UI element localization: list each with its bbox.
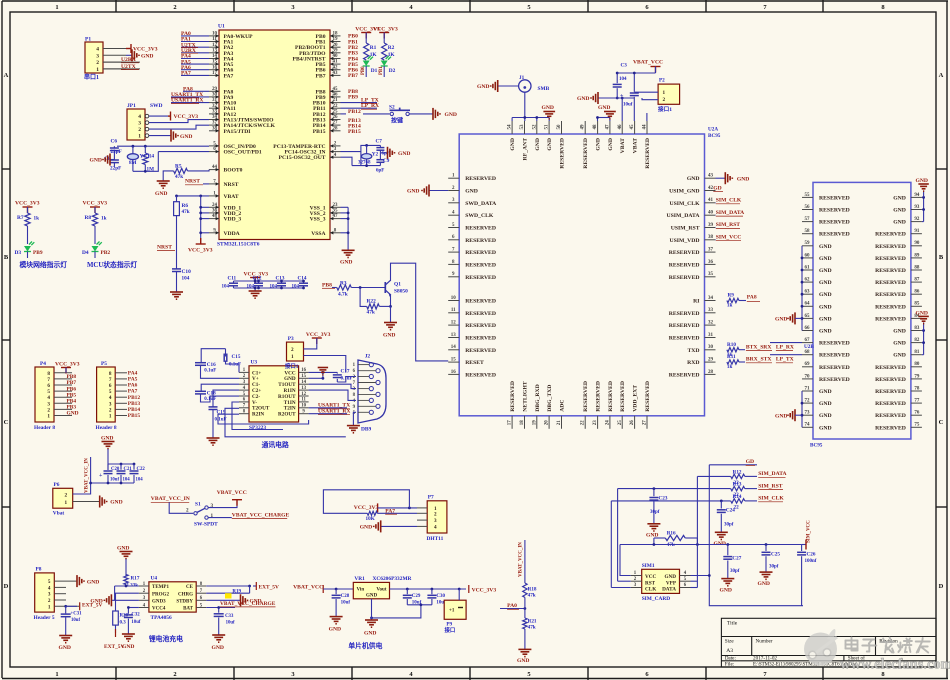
svg-text:RESERVED: RESERVED	[875, 377, 906, 383]
svg-text:104: 104	[247, 285, 255, 290]
wire GND pins 48 47	[596, 116, 610, 121]
button S2	[389, 105, 410, 125]
svg-text:104: 104	[123, 478, 131, 483]
svg-text:16: 16	[212, 65, 218, 70]
svg-text:57: 57	[805, 217, 811, 222]
wire V- T2OUT R2IN runs	[218, 402, 346, 437]
svg-text:104: 104	[619, 77, 627, 82]
svg-text:8: 8	[109, 371, 112, 377]
svg-text:GND: GND	[819, 280, 832, 286]
svg-text:GND: GND	[117, 546, 129, 552]
mcu U1 STM32L151C8T6	[217, 24, 330, 248]
svg-text:TXD: TXD	[687, 348, 699, 354]
svg-text:BTX_SRX: BTX_SRX	[746, 344, 772, 350]
power VCC_3V3 of D2	[373, 27, 398, 44]
wire U2B left GND pins 59-66	[801, 246, 804, 331]
power VCC_3V3 at P3	[304, 332, 331, 349]
svg-text:U2B: U2B	[804, 344, 814, 350]
switch S1 SW-SPDT	[186, 501, 218, 527]
net GD wire	[709, 459, 757, 465]
svg-text:接口: 接口	[445, 626, 456, 634]
svg-text:24: 24	[605, 420, 610, 426]
svg-text:7: 7	[47, 377, 50, 383]
svg-text:USART1_RX: USART1_RX	[318, 409, 350, 415]
svg-text:GND: GND	[819, 401, 832, 407]
svg-text:1k: 1k	[101, 216, 107, 222]
svg-text:10: 10	[301, 404, 306, 409]
svg-text:U4: U4	[151, 576, 158, 582]
svg-text:VBAT_VCC_CHARGE: VBAT_VCC_CHARGE	[220, 601, 276, 607]
svg-text:RESERVED: RESERVED	[465, 323, 496, 329]
capacitor C24 30pf	[717, 501, 735, 532]
capacitor C3 104	[613, 63, 628, 100]
wire Y2 top rail	[361, 144, 381, 166]
svg-text:TPA4056: TPA4056	[151, 615, 172, 621]
svg-text:C27: C27	[732, 556, 741, 562]
wire C17 to DB9 pin2	[337, 377, 356, 383]
ground of S2	[433, 108, 457, 120]
svg-text:6pF: 6pF	[376, 169, 384, 174]
wire below D4	[94, 252, 96, 259]
module U2B BC95 ground block	[804, 182, 911, 448]
svg-text:2: 2	[48, 598, 51, 604]
svg-text:XC6206P332MR: XC6206P332MR	[373, 576, 412, 582]
svg-text:VBAT_VCC_IN: VBAT_VCC_IN	[84, 458, 89, 493]
svg-text:78: 78	[914, 386, 920, 391]
svg-text:GND: GND	[598, 105, 610, 111]
svg-text:21: 21	[557, 420, 562, 426]
wire C26 column	[801, 545, 803, 552]
U2A right pins 43-28	[667, 174, 716, 379]
svg-text:8M: 8M	[129, 160, 137, 166]
U2B right pins 94-75	[875, 193, 922, 431]
svg-text:R2OUT: R2OUT	[278, 412, 296, 418]
power SIM_VCC	[802, 520, 812, 550]
svg-text:J2: J2	[365, 354, 371, 360]
svg-text:RESERVED: RESERVED	[465, 372, 496, 378]
wire R8 to D4	[94, 226, 96, 244]
SIM1 pins	[631, 571, 691, 588]
net NRST at R6	[157, 216, 177, 269]
svg-text:GND3: GND3	[152, 600, 166, 605]
title block	[721, 618, 936, 667]
svg-text:92: 92	[914, 217, 920, 222]
ic U4 TPA4056	[149, 576, 196, 622]
antenna connector J1 SMB	[519, 75, 550, 92]
net PB12 wire to S2	[341, 109, 390, 115]
svg-text:RESERVED: RESERVED	[875, 365, 906, 371]
net USART1_RX at R2OUT	[309, 409, 351, 415]
svg-text:C22: C22	[137, 467, 146, 472]
svg-text:21: 21	[333, 98, 339, 103]
ground of C31	[59, 636, 73, 652]
capacitor C22 104	[130, 464, 146, 483]
svg-text:RXD: RXD	[687, 360, 699, 366]
connector P2 battery	[658, 78, 680, 114]
svg-text:J1: J1	[519, 75, 525, 81]
svg-text:77: 77	[914, 399, 920, 404]
wire LP_RX to pin67	[770, 342, 802, 344]
wire VBAT rail	[175, 195, 209, 198]
ground at P7 pin4	[360, 520, 417, 532]
svg-text:PB14: PB14	[128, 407, 141, 413]
U2A left pins 1-16	[448, 174, 497, 379]
svg-text:GND: GND	[340, 260, 352, 266]
svg-text:75: 75	[914, 423, 920, 428]
wire top loop to C15	[201, 349, 225, 363]
svg-text:VBAT: VBAT	[224, 194, 239, 200]
wire R7 to D3	[27, 226, 29, 244]
svg-text:1K: 1K	[388, 52, 396, 58]
svg-text:RESERVED: RESERVED	[465, 311, 496, 317]
wire P7 pullup loop	[323, 490, 409, 514]
wire JP1 pin3 to PA13	[149, 120, 209, 123]
resistor R20 0.3	[113, 611, 129, 626]
svg-text:P6: P6	[54, 482, 60, 488]
wire crystal bottom	[133, 152, 158, 173]
svg-text:29: 29	[708, 358, 714, 363]
wire Q1 collector to RESET	[391, 263, 449, 361]
connector JP1 SWD	[127, 103, 163, 140]
svg-text:1: 1	[55, 4, 58, 11]
svg-text:47k: 47k	[182, 209, 190, 215]
power VCC_3V3 at JP1 pin4	[149, 112, 198, 121]
wire S2 to ground	[409, 113, 433, 115]
svg-text:P3: P3	[288, 336, 294, 342]
svg-text:A3: A3	[726, 648, 733, 654]
svg-text:4: 4	[48, 585, 51, 591]
wire SIM_RST vertical	[617, 489, 619, 582]
svg-text:104: 104	[270, 285, 278, 290]
svg-text:43: 43	[708, 174, 714, 179]
svg-text:A: A	[4, 72, 9, 79]
svg-text:19: 19	[333, 37, 339, 42]
svg-text:D: D	[4, 583, 9, 590]
wire U2B right GND pins 83 82 81	[922, 322, 925, 354]
ground at P6 pin1	[73, 496, 123, 508]
svg-text:PB13: PB13	[128, 401, 141, 407]
svg-text:PB1: PB1	[379, 66, 384, 75]
svg-text:VPP: VPP	[666, 580, 677, 586]
capacitor C20 10uf	[99, 464, 120, 483]
svg-text:B: B	[939, 254, 944, 261]
svg-text:GND: GND	[67, 411, 79, 417]
svg-text:26: 26	[333, 115, 339, 120]
svg-text:R13: R13	[733, 482, 742, 488]
ground at U2A pin2	[407, 185, 448, 197]
wire R17 to U4 TEMP	[115, 585, 139, 601]
svg-text:69: 69	[805, 362, 811, 367]
svg-text:1k: 1k	[34, 216, 40, 222]
svg-text:PB9: PB9	[33, 250, 43, 256]
U1 right pins with numbers	[273, 32, 340, 237]
svg-text:12: 12	[212, 43, 218, 48]
ground of C27	[720, 579, 735, 594]
power VCC_3V3 below VDD bus	[188, 238, 213, 254]
svg-text:C15: C15	[232, 354, 241, 360]
svg-text:47: 47	[333, 214, 339, 219]
ground of R5	[155, 171, 174, 197]
svg-text:+C31: +C31	[71, 612, 83, 617]
svg-text:47k: 47k	[367, 310, 375, 316]
svg-text:1: 1	[65, 500, 68, 506]
wire VBAT pins 46 45	[621, 97, 635, 121]
svg-text:GND: GND	[687, 176, 700, 182]
svg-text:14: 14	[451, 345, 457, 350]
resistor R7 1k	[17, 213, 39, 226]
svg-text:R19: R19	[232, 590, 241, 595]
capacitor C4 10uf electrolytic	[620, 73, 639, 108]
svg-text:68: 68	[805, 350, 811, 355]
watermark logo	[804, 629, 837, 666]
wire SIM_VCC rail	[620, 543, 802, 546]
svg-text:GND: GND	[893, 353, 906, 359]
svg-text:GND: GND	[535, 138, 541, 151]
svg-text:GND: GND	[819, 256, 832, 262]
svg-text:2: 2	[173, 671, 176, 678]
svg-text:C26: C26	[807, 551, 816, 557]
svg-text:VCC_3V3: VCC_3V3	[15, 201, 40, 207]
wire C2+ to C19 column	[213, 390, 239, 406]
capacitor C27 30pf	[723, 545, 741, 579]
wire U4 CHRG with marker	[206, 590, 249, 599]
svg-text:RESERVED: RESERVED	[669, 311, 700, 317]
wire Q1 emitter	[389, 295, 392, 308]
svg-text:Q1: Q1	[394, 282, 401, 288]
svg-text:66: 66	[805, 326, 811, 331]
svg-text:GND: GND	[398, 151, 410, 157]
svg-text:8: 8	[47, 371, 50, 377]
svg-text:86: 86	[914, 290, 920, 295]
svg-text:2: 2	[186, 508, 189, 514]
svg-text:锂电池充电: 锂电池充电	[149, 634, 183, 643]
svg-text:BAT: BAT	[183, 607, 194, 612]
net PB8 to R3	[322, 282, 337, 288]
svg-text:D4: D4	[82, 250, 89, 256]
ground of C10	[170, 292, 183, 299]
net SIM_VCC at pin38	[715, 235, 741, 241]
svg-text:24: 24	[212, 203, 218, 208]
svg-text:85: 85	[914, 302, 920, 307]
svg-text:22: 22	[581, 420, 586, 426]
module U2A BC95 main block	[459, 127, 721, 416]
svg-text:VSSA: VSSA	[311, 231, 325, 237]
svg-text:RESERVED: RESERVED	[560, 138, 566, 169]
svg-text:34: 34	[708, 296, 714, 301]
connector P6 Vbat	[53, 482, 73, 517]
svg-text:GND: GND	[819, 244, 832, 250]
wire OSC_OUT	[158, 151, 209, 153]
svg-text:P4: P4	[40, 361, 46, 367]
U2A top pins 54-44	[508, 121, 651, 169]
svg-text:83: 83	[914, 326, 920, 331]
nets at P5	[128, 370, 141, 419]
capacitor C13 104	[270, 276, 287, 290]
svg-text:44: 44	[643, 124, 648, 130]
net NRST to U1	[185, 179, 209, 185]
capacitor C32 10uf	[124, 606, 141, 625]
svg-text:Title: Title	[727, 621, 738, 627]
svg-text:30pf: 30pf	[769, 564, 779, 569]
svg-text:36: 36	[708, 260, 714, 265]
svg-text:10uf: 10uf	[131, 620, 140, 625]
svg-text:GND: GND	[477, 84, 489, 90]
resistor R4 1M	[143, 146, 155, 172]
svg-text:RESERVED: RESERVED	[819, 220, 850, 226]
svg-text:RESERVED: RESERVED	[669, 336, 700, 342]
svg-text:PB7: PB7	[67, 380, 77, 386]
svg-text:GND: GND	[329, 627, 341, 633]
svg-text:RESERVED: RESERVED	[465, 250, 496, 256]
svg-text:PB15: PB15	[313, 129, 326, 135]
connector P8 Header 5	[34, 567, 80, 622]
svg-text:Vbat: Vbat	[53, 511, 65, 517]
capacitor C6 22pF	[110, 139, 122, 160]
capacitor C23 30pf	[649, 489, 667, 524]
svg-text:1: 1	[109, 414, 112, 420]
svg-text:C14: C14	[298, 276, 307, 282]
svg-text:59: 59	[805, 241, 811, 246]
svg-text:GND: GND	[608, 138, 614, 151]
wire Y2 bottom rail	[352, 164, 380, 167]
svg-text:RF_ANT: RF_ANT	[523, 138, 529, 161]
svg-text:30pf: 30pf	[724, 522, 734, 527]
svg-text:STDBY: STDBY	[176, 600, 193, 605]
svg-text:GND: GND	[542, 105, 554, 111]
svg-text:RESERVED: RESERVED	[465, 226, 496, 232]
svg-text:SIM_VCC: SIM_VCC	[716, 235, 741, 241]
ground of Y2 caps	[380, 147, 410, 159]
svg-text:DBG_TXD: DBG_TXD	[547, 385, 553, 412]
wire P3 pin1 down	[304, 356, 346, 373]
svg-text:GND: GND	[916, 310, 928, 316]
svg-text:R2: R2	[388, 45, 395, 51]
svg-text:0.1uF: 0.1uF	[204, 368, 216, 373]
ground of C25	[758, 572, 773, 587]
svg-text:RESERVED: RESERVED	[669, 250, 700, 256]
svg-text:30: 30	[212, 93, 218, 98]
svg-text:DBG_RXD: DBG_RXD	[535, 384, 541, 412]
svg-text:2: 2	[96, 60, 99, 66]
wire SIM_VCC to SIM1	[620, 545, 631, 576]
svg-text:25: 25	[618, 420, 623, 426]
svg-text:C18: C18	[207, 390, 216, 396]
svg-text:R11: R11	[727, 354, 736, 360]
svg-text:GND: GND	[101, 436, 113, 442]
svg-text:37: 37	[708, 248, 714, 253]
svg-text:RI: RI	[693, 299, 700, 305]
svg-text:39: 39	[708, 223, 714, 228]
svg-text:+1: +1	[449, 609, 455, 614]
svg-text:PB5: PB5	[67, 392, 77, 398]
crystal Y2 32768	[358, 145, 379, 165]
svg-text:GND: GND	[819, 389, 832, 395]
svg-text:USIM_DATA: USIM_DATA	[667, 213, 701, 219]
nets PA0-PA7 to U1	[181, 31, 209, 77]
svg-text:LP_RX: LP_RX	[361, 103, 379, 109]
svg-text:61: 61	[805, 265, 811, 270]
svg-text:104: 104	[292, 285, 300, 290]
svg-text:C11: C11	[228, 276, 237, 282]
net U2RX at P1 pin2	[103, 57, 140, 63]
svg-text:100nf: 100nf	[805, 559, 817, 564]
connector P1 serial	[84, 37, 126, 82]
svg-text:RESERVED: RESERVED	[645, 381, 651, 412]
svg-text:RESERVED: RESERVED	[875, 256, 906, 262]
wire R3 to Q1 base	[351, 286, 385, 289]
svg-text:NRST: NRST	[157, 244, 172, 250]
wire PC14	[341, 151, 361, 153]
connector P3	[285, 336, 304, 370]
svg-text:73: 73	[805, 411, 811, 416]
svg-text:STM32L151C8T6: STM32L151C8T6	[217, 242, 260, 248]
svg-text:U2A: U2A	[708, 127, 718, 133]
svg-text:VCC_3V3: VCC_3V3	[373, 27, 398, 33]
svg-text:S8050: S8050	[394, 289, 408, 295]
svg-text:11: 11	[451, 308, 456, 313]
capacitor C10 104	[172, 269, 191, 292]
wire U4 PROG to R20	[116, 593, 139, 611]
svg-text:29: 29	[212, 87, 218, 92]
svg-text:VCC_3V3: VCC_3V3	[306, 332, 331, 338]
svg-text:54: 54	[508, 124, 513, 130]
svg-text:40: 40	[333, 54, 339, 59]
capacitor C18 0.1uF	[195, 390, 239, 402]
svg-text:C3: C3	[621, 63, 628, 69]
power VCC_3V3 of D3	[15, 201, 40, 214]
svg-text:USART1_RX: USART1_RX	[171, 98, 203, 104]
capacitor C19 0.1uF	[209, 407, 227, 438]
svg-text:32768: 32768	[358, 160, 371, 165]
svg-text:0.1uF: 0.1uF	[229, 363, 241, 368]
svg-text:串口1: 串口1	[84, 73, 99, 81]
svg-text:GND: GND	[893, 195, 906, 201]
svg-text:38: 38	[708, 235, 714, 240]
svg-text:VBAT: VBAT	[633, 138, 639, 154]
svg-text:RESERVED: RESERVED	[875, 425, 906, 431]
svg-text:R17: R17	[131, 575, 140, 581]
wire GND pins 54 52 51	[512, 116, 549, 121]
svg-text:RESERVED: RESERVED	[596, 381, 602, 412]
svg-text:USIM_CLK: USIM_CLK	[669, 201, 700, 207]
svg-text:14: 14	[212, 54, 218, 59]
power VBAT_VCC	[633, 60, 663, 74]
svg-text:GND: GND	[664, 574, 676, 580]
svg-text:52: 52	[532, 124, 537, 130]
svg-text:RESERVED: RESERVED	[583, 138, 589, 169]
power VCC_3V3 decoupling rail	[234, 271, 304, 288]
svg-text:23: 23	[333, 203, 339, 208]
svg-text:OSC_OUT/PD1: OSC_OUT/PD1	[224, 150, 262, 156]
svg-text:SIM_CLK: SIM_CLK	[758, 496, 784, 502]
svg-text:20: 20	[333, 43, 339, 48]
wire SIM1 CLK	[611, 587, 630, 589]
svg-text:PROG2: PROG2	[152, 592, 169, 597]
U4 pins	[139, 582, 206, 609]
svg-text:13: 13	[212, 48, 218, 53]
wire P2 pin1	[634, 91, 658, 93]
svg-text:41: 41	[708, 198, 714, 203]
svg-text:RESERVED: RESERVED	[875, 389, 906, 395]
svg-text:87: 87	[914, 278, 920, 283]
svg-text:GND: GND	[819, 304, 832, 310]
wire SIM1 VPP stub	[691, 580, 698, 582]
svg-text:DATA: DATA	[662, 587, 676, 593]
power VCC_3V3 output	[469, 585, 497, 594]
svg-text:D3: D3	[15, 250, 22, 256]
ground of pins 94-92	[916, 178, 929, 191]
svg-text:GND: GND	[916, 178, 928, 184]
